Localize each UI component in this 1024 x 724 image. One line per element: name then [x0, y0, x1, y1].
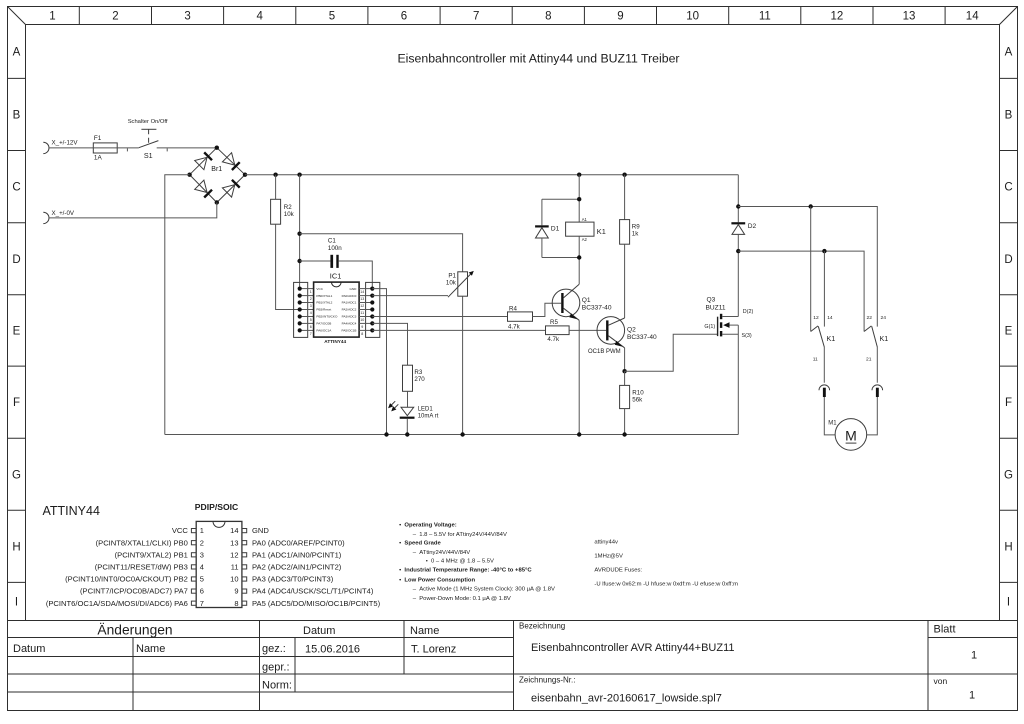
- transistor Q3 BUZ11 MOSFET: [704, 297, 753, 435]
- svg-text:Datum: Datum: [303, 625, 335, 637]
- svg-text:10: 10: [360, 318, 364, 322]
- junction D2 top: [736, 204, 740, 208]
- svg-text:LED1: LED1: [418, 406, 434, 412]
- wire gate of Q3: [625, 334, 718, 371]
- svg-text:D: D: [1004, 254, 1012, 266]
- svg-text:PB3/Reset: PB3/Reset: [316, 308, 331, 312]
- svg-text:A: A: [13, 47, 21, 59]
- svg-text:Q1: Q1: [582, 297, 591, 304]
- svg-text:G(1): G(1): [704, 324, 715, 330]
- svg-text:Blatt: Blatt: [934, 624, 956, 636]
- svg-text:S1: S1: [144, 151, 153, 160]
- wire 0V input to bridge bottom: [49, 203, 217, 218]
- junction Q2 emitter / R10 / gate: [622, 369, 626, 373]
- svg-text:(PCINT8/XTAL1/CLKI) PB0: (PCINT8/XTAL1/CLKI) PB0: [96, 538, 188, 547]
- wire contact 14 drop: [823, 251, 825, 327]
- svg-text:C: C: [1004, 182, 1012, 194]
- svg-text:7: 7: [200, 599, 204, 608]
- junction bridge right: [243, 173, 247, 177]
- svg-text:-U lfuse:w 0x62:m -U hfuse:w 0: -U lfuse:w 0x62:m -U hfuse:w 0xdf:m -U e…: [594, 581, 738, 587]
- svg-text:IC1: IC1: [330, 271, 342, 280]
- svg-text:eisenbahn_avr-20160617_lowside: eisenbahn_avr-20160617_lowside.spl7: [531, 693, 722, 705]
- wire fuse to switch: [117, 148, 139, 152]
- svg-text:12: 12: [230, 550, 238, 559]
- resistor R10 56k: [620, 371, 645, 434]
- svg-text:T. Lorenz: T. Lorenz: [411, 644, 456, 656]
- svg-text:D1: D1: [551, 225, 560, 232]
- svg-text:K1: K1: [597, 227, 606, 236]
- svg-text:PA0 (ADC0/AREF/PCINT0): PA0 (ADC0/AREF/PCINT0): [252, 538, 345, 547]
- svg-text:5: 5: [310, 318, 312, 322]
- svg-text:gepr.:: gepr.:: [262, 662, 290, 674]
- svg-text:2: 2: [112, 11, 118, 23]
- svg-text:attiny44v: attiny44v: [594, 540, 618, 546]
- svg-text:von: von: [934, 676, 948, 686]
- svg-text:Br1: Br1: [211, 166, 222, 173]
- svg-text:F1: F1: [94, 135, 102, 142]
- svg-text:12: 12: [813, 315, 819, 321]
- resistor R5 4.7k: [546, 319, 607, 343]
- svg-text:Eisenbahncontroller mit Attiny: Eisenbahncontroller mit Attiny44 und BUZ…: [397, 52, 679, 66]
- svg-text:22: 22: [867, 315, 873, 321]
- svg-text:PA1 (ADC1/AIN0/PCINT1): PA1 (ADC1/AIN0/PCINT1): [252, 550, 342, 559]
- svg-text:1: 1: [971, 650, 977, 662]
- svg-text:G: G: [1004, 469, 1013, 481]
- svg-text:PA6/OC1A: PA6/OC1A: [316, 329, 332, 333]
- svg-text:PA4 (ADC4/USCK/SCL/T1/PCINT4): PA4 (ADC4/USCK/SCL/T1/PCINT4): [252, 587, 374, 596]
- svg-text:ATTINY44: ATTINY44: [324, 339, 346, 344]
- svg-text:R9: R9: [632, 224, 640, 231]
- svg-text:2: 2: [310, 297, 312, 301]
- svg-text:• Low Power Consumption: • Low Power Consumption: [399, 577, 475, 583]
- svg-text:56k: 56k: [632, 397, 643, 404]
- svg-text:• Industrial Temperature Rang: • Industrial Temperature Range: -40°C to…: [399, 568, 532, 574]
- svg-text:1: 1: [969, 690, 975, 702]
- svg-text:M1: M1: [828, 420, 837, 426]
- connector X_+/-0V: [43, 210, 75, 224]
- wire +12V rail: [245, 174, 738, 176]
- svg-text:R5: R5: [550, 319, 558, 326]
- resistor R3 270: [403, 365, 426, 407]
- svg-text:7: 7: [310, 332, 312, 336]
- relay contact K1a: [811, 315, 836, 383]
- svg-text:S(3): S(3): [742, 333, 752, 339]
- svg-text:B: B: [13, 110, 21, 122]
- resistor R9 1k: [609, 175, 641, 326]
- wire motor supply bottom: [738, 251, 864, 331]
- svg-text:D: D: [12, 254, 20, 266]
- svg-text:(PCINT10/INT0/OC0A/CKOUT) PB2: (PCINT10/INT0/OC0A/CKOUT) PB2: [65, 575, 188, 584]
- junction D1 anode / K1 bottom: [577, 255, 581, 259]
- svg-text:PA2/ADC2: PA2/ADC2: [342, 308, 357, 312]
- svg-text:Norm:: Norm:: [262, 680, 292, 692]
- svg-text:Name: Name: [136, 643, 165, 655]
- svg-text:H: H: [1004, 541, 1012, 553]
- svg-text:14: 14: [966, 11, 979, 23]
- junction rail LED: [405, 432, 409, 436]
- junction P1 branch: [297, 232, 301, 236]
- svg-text:4.7k: 4.7k: [547, 336, 560, 343]
- svg-text:Bezeichnung: Bezeichnung: [519, 622, 565, 631]
- junction D1 cathode / K1 top: [577, 197, 581, 201]
- svg-text:11: 11: [231, 563, 239, 572]
- svg-text:8: 8: [545, 11, 551, 23]
- transistor Q2 BC337-40: [588, 317, 657, 372]
- junction contact 14 tap: [822, 249, 826, 253]
- svg-text:(PCINT9/XTAL2) PB1: (PCINT9/XTAL2) PB1: [115, 550, 188, 559]
- svg-text:10: 10: [230, 575, 238, 584]
- svg-text:10k: 10k: [284, 211, 295, 218]
- svg-text:Q3: Q3: [707, 297, 716, 304]
- svg-text:VCC: VCC: [172, 526, 189, 535]
- svg-text:6: 6: [310, 325, 312, 329]
- wire PA0 to P1 wiper: [372, 295, 448, 297]
- svg-text:1MHz@5V: 1MHz@5V: [594, 553, 623, 559]
- svg-text:Änderungen: Änderungen: [97, 622, 172, 638]
- svg-text:9: 9: [234, 587, 238, 596]
- svg-text:10mA rt: 10mA rt: [418, 413, 439, 419]
- svg-text:8: 8: [361, 332, 363, 336]
- svg-text:Q2: Q2: [627, 327, 636, 334]
- ATtiny44 feature notes: [399, 522, 555, 602]
- svg-text:F: F: [13, 397, 20, 409]
- svg-text:PB0/XTAL1: PB0/XTAL1: [316, 294, 332, 298]
- svg-text:12: 12: [831, 11, 844, 23]
- svg-text:OC1B PWM: OC1B PWM: [588, 349, 621, 355]
- wire bridge left to ground rail: [165, 175, 190, 435]
- plug connector left: [819, 385, 835, 435]
- svg-text:D2: D2: [748, 223, 757, 230]
- svg-text:1k: 1k: [632, 231, 639, 238]
- transistor Q1 BC337-40: [552, 258, 612, 435]
- svg-text:3: 3: [184, 11, 190, 23]
- fuse F1 1A: [93, 135, 117, 162]
- svg-text:4: 4: [256, 11, 263, 23]
- svg-text:3: 3: [200, 550, 204, 559]
- relay contact K1b: [864, 315, 888, 383]
- svg-text:R4: R4: [509, 305, 517, 312]
- svg-text:4.7k: 4.7k: [508, 324, 521, 331]
- IC1 right pin header: [359, 282, 380, 337]
- svg-text:C1: C1: [328, 237, 336, 244]
- svg-text:PA2 (ADC2/AIN1/PCINT2): PA2 (ADC2/AIN1/PCINT2): [252, 563, 342, 572]
- wire VCC vertical: [299, 175, 301, 289]
- svg-text:Eisenbahncontroller AVR Attiny: Eisenbahncontroller AVR Attiny44+BUZ11: [531, 642, 735, 654]
- svg-text:11: 11: [360, 311, 364, 315]
- junction rail R10: [622, 432, 626, 436]
- svg-text:10k: 10k: [446, 280, 457, 287]
- svg-text:15.06.2016: 15.06.2016: [305, 644, 360, 656]
- svg-text:1: 1: [310, 290, 312, 294]
- svg-text:• Operating Voltage:: • Operating Voltage:: [399, 522, 457, 528]
- svg-text:PB1/XTAL2: PB1/XTAL2: [316, 301, 332, 305]
- svg-text:• Speed Grade: • Speed Grade: [399, 541, 441, 547]
- svg-text:8: 8: [234, 599, 238, 608]
- svg-text:A: A: [1005, 47, 1013, 59]
- wire PA4 to R3: [372, 323, 407, 365]
- svg-text:21: 21: [866, 356, 872, 362]
- svg-text:E: E: [13, 326, 21, 338]
- svg-text:13: 13: [360, 297, 364, 301]
- junction rail P1: [460, 432, 464, 436]
- wire input to fuse: [49, 147, 94, 149]
- svg-text:C: C: [12, 182, 20, 194]
- svg-text:PA0/ADC0: PA0/ADC0: [342, 294, 357, 298]
- svg-text:1: 1: [49, 11, 55, 23]
- svg-text:D(2): D(2): [743, 309, 754, 315]
- svg-text:F: F: [1005, 397, 1012, 409]
- svg-text:PB2/INT0/CKO: PB2/INT0/CKO: [316, 315, 338, 319]
- svg-text:– 1.8 – 5.5V for ATtiny24V/44: – 1.8 – 5.5V for ATtiny24V/44V/84V: [413, 532, 507, 538]
- svg-text:13: 13: [230, 538, 238, 547]
- svg-text:VCC: VCC: [316, 287, 323, 291]
- svg-text:K1: K1: [880, 334, 889, 343]
- svg-text:12: 12: [360, 304, 364, 308]
- svg-text:R3: R3: [414, 369, 422, 376]
- resistor R2 10k: [271, 175, 300, 310]
- svg-text:14: 14: [827, 315, 833, 321]
- diode D2: [731, 222, 756, 316]
- LED LED1 10mA rt: [388, 401, 439, 434]
- svg-text:PDIP/SOIC: PDIP/SOIC: [195, 502, 238, 512]
- svg-text:BUZ11: BUZ11: [706, 304, 726, 311]
- junction rail Q1 emitter: [577, 432, 581, 436]
- motor M1: [828, 419, 866, 451]
- svg-text:13: 13: [903, 11, 916, 23]
- plug connector right: [867, 385, 883, 435]
- svg-text:2: 2: [200, 538, 204, 547]
- wire PA3 to R4: [372, 316, 507, 318]
- svg-text:E: E: [1005, 326, 1013, 338]
- junction VCC branch: [297, 173, 301, 177]
- svg-text:– Active Mode (1 MHz System C: – Active Mode (1 MHz System Clock): 300 …: [413, 587, 555, 593]
- wire motor supply top: [738, 207, 877, 327]
- junction R2 top: [273, 173, 277, 177]
- resistor R4 4.7k: [508, 303, 562, 330]
- svg-text:BC337-40: BC337-40: [582, 305, 612, 312]
- svg-text:Name: Name: [410, 625, 439, 637]
- svg-text:100n: 100n: [328, 245, 342, 252]
- title block: [8, 621, 1018, 711]
- svg-text:X_+/-12V: X_+/-12V: [52, 140, 79, 147]
- svg-text:Zeichnungs-Nr.:: Zeichnungs-Nr.:: [519, 676, 575, 685]
- potentiometer P1 10k: [446, 271, 474, 435]
- svg-text:PA3/ADC3: PA3/ADC3: [342, 315, 357, 319]
- capacitor C1 100n: [300, 237, 373, 288]
- junction rail GND: [384, 432, 388, 436]
- junction contact 12 tap: [809, 204, 813, 208]
- svg-text:6: 6: [401, 11, 407, 23]
- svg-text:gez.:: gez.:: [262, 643, 286, 655]
- op-amp/IC IC1 ATtiny44 left pin header: [294, 282, 314, 337]
- svg-text:3: 3: [310, 304, 312, 308]
- switch S1 Schalter On/Off: [128, 119, 168, 160]
- junction D2 bottom: [736, 249, 740, 253]
- svg-text:1A: 1A: [94, 155, 103, 162]
- junction bridge left: [187, 173, 191, 177]
- connector X_+/-12V: [43, 140, 78, 154]
- svg-text:AVRDUDE Fuses:: AVRDUDE Fuses:: [594, 568, 642, 574]
- svg-text:K1: K1: [827, 334, 836, 343]
- svg-text:B: B: [1005, 110, 1013, 122]
- junction C1 branch: [297, 259, 301, 263]
- svg-text:ATTINY44: ATTINY44: [43, 504, 100, 518]
- junction bridge bottom: [215, 200, 219, 204]
- relay coil K1: [566, 175, 606, 258]
- junction bridge top: [215, 146, 219, 150]
- svg-text:GND: GND: [350, 287, 358, 291]
- svg-text:PA3 (ADC3/T0/PCINT3): PA3 (ADC3/T0/PCINT3): [252, 575, 334, 584]
- svg-text:5: 5: [329, 11, 335, 23]
- svg-text:PA5/OC1B: PA5/OC1B: [341, 329, 356, 333]
- svg-text:1: 1: [200, 526, 204, 535]
- svg-text:9: 9: [361, 325, 363, 329]
- svg-text:R2: R2: [284, 204, 292, 211]
- svg-text:I: I: [15, 597, 18, 609]
- wire to P1 top: [300, 234, 463, 272]
- svg-text:10: 10: [686, 11, 699, 23]
- svg-text:– ATtiny24V/44V/84V: – ATtiny24V/44V/84V: [413, 550, 471, 556]
- wire switch to bridge: [157, 148, 217, 152]
- svg-text:Datum: Datum: [13, 643, 45, 655]
- svg-text:A2: A2: [582, 237, 588, 242]
- bridge rectifier Br1: [190, 148, 245, 203]
- wire PA5/OC1B to R5: [372, 329, 545, 331]
- svg-text:I: I: [1007, 597, 1010, 609]
- svg-text:4: 4: [200, 563, 204, 572]
- wire +12V to D2 trunk: [737, 175, 739, 223]
- svg-text:9: 9: [617, 11, 623, 23]
- svg-text:• 0 – 4 MHz @ 1.8 – 5.5V: • 0 – 4 MHz @ 1.8 – 5.5V: [426, 559, 494, 565]
- svg-text:R10: R10: [632, 390, 644, 397]
- PDIP/SOIC package diagram: [46, 502, 381, 608]
- svg-text:– Power-Down Mode: 0.1 µA @ 1: – Power-Down Mode: 0.1 µA @ 1.8V: [413, 596, 511, 602]
- svg-text:X_+/-0V: X_+/-0V: [52, 210, 75, 217]
- svg-text:11: 11: [759, 11, 771, 23]
- svg-text:H: H: [12, 541, 20, 553]
- svg-text:PA1/ADC1: PA1/ADC1: [342, 301, 357, 305]
- svg-text:6: 6: [200, 587, 204, 596]
- svg-text:G: G: [12, 469, 21, 481]
- svg-text:(PCINT11/RESET/dW) PB3: (PCINT11/RESET/dW) PB3: [95, 563, 188, 572]
- junction K1 branch rail: [577, 173, 581, 177]
- svg-text:5: 5: [200, 575, 204, 584]
- svg-text:(PCINT7/ICP/OC0B/ADC7) PA7: (PCINT7/ICP/OC0B/ADC7) PA7: [80, 587, 188, 596]
- svg-text:PA4/ADC4: PA4/ADC4: [342, 322, 357, 326]
- svg-text:24: 24: [881, 315, 887, 321]
- svg-text:4: 4: [310, 311, 312, 315]
- wire ground rail: [165, 434, 739, 436]
- svg-text:14: 14: [230, 526, 238, 535]
- svg-text:Schalter On/Off: Schalter On/Off: [128, 119, 168, 125]
- svg-text:BC337-40: BC337-40: [627, 334, 657, 341]
- AVRDUDE fuse notes: [594, 540, 738, 588]
- svg-text:(PCINT6/OC1A/SDA/MOSI/DI/ADC6): (PCINT6/OC1A/SDA/MOSI/DI/ADC6) PA6: [46, 599, 188, 608]
- wire GND pin14 to ground rail: [372, 289, 386, 435]
- svg-text:7: 7: [473, 11, 479, 23]
- svg-text:PA5 (ADC5/DO/MISO/OC1B/PCINT5): PA5 (ADC5/DO/MISO/OC1B/PCINT5): [252, 599, 381, 608]
- diode D1: [535, 199, 579, 257]
- svg-text:270: 270: [414, 376, 425, 383]
- svg-text:M: M: [845, 427, 857, 443]
- svg-text:11: 11: [813, 356, 818, 362]
- svg-text:GND: GND: [252, 526, 269, 535]
- svg-text:A1: A1: [582, 217, 588, 222]
- svg-text:PA7/OC0B: PA7/OC0B: [316, 322, 331, 326]
- IC1 body ATTINY44: [314, 271, 360, 343]
- wire contact 12 drop: [810, 207, 812, 332]
- junction R9 rail: [622, 173, 626, 177]
- svg-text:14: 14: [360, 290, 364, 294]
- svg-text:P1: P1: [448, 273, 456, 280]
